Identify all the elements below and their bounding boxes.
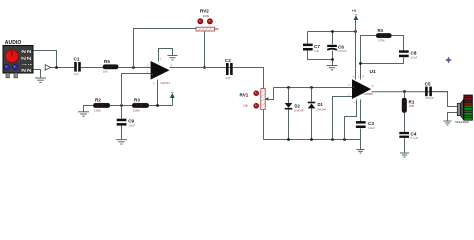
wire U1 pin7 riser and RX feed	[361, 36, 377, 80]
node junction at 157,105.3	[156, 104, 159, 107]
svg-text:10k: 10k	[103, 70, 108, 74]
svg-text:+: +	[151, 73, 153, 77]
power terminal +V	[352, 9, 358, 79]
node junction at 311.5,139.8	[310, 138, 313, 141]
svg-text:100k: 100k	[203, 14, 210, 18]
node junction at 56,67	[55, 66, 58, 69]
pot RV1	[240, 89, 269, 110]
diode D2	[285, 88, 304, 140]
wire R2 to R3	[110, 105, 133, 107]
wire jack tip to node	[34, 51, 57, 68]
svg-text:RV2: RV2	[200, 8, 209, 13]
svg-text:100k: 100k	[94, 108, 101, 112]
node junction at 133.5,67	[132, 66, 135, 69]
pot RV2	[196, 8, 219, 31]
svg-text:270k: 270k	[378, 38, 385, 42]
capacitor C2	[225, 58, 233, 80]
svg-text:1uF: 1uF	[314, 49, 319, 53]
ground (bottom rail)	[357, 150, 365, 154]
node junction at 344.2,139.8	[343, 138, 346, 141]
svg-text:0.1uF: 0.1uF	[411, 136, 419, 140]
resistor RX	[376, 28, 391, 43]
svg-text:1N4148: 1N4148	[294, 109, 304, 113]
svg-text:U1: U1	[370, 69, 376, 75]
ground (jack)	[35, 78, 46, 82]
svg-text:RX: RX	[378, 28, 384, 33]
power terminal +V (bias)	[170, 93, 174, 106]
svg-text:10uF: 10uF	[128, 124, 135, 128]
wire op-amp U2 pin7 to ground	[159, 49, 173, 62]
ground (U2 top)	[168, 56, 178, 60]
op-amp U1 LM386	[348, 69, 376, 105]
wire RV2 wiper to signal line	[204, 32, 206, 68]
cursor marker	[445, 57, 452, 64]
wire RX to C8	[392, 36, 404, 51]
wire RV1 bottom to bottom rail	[263, 110, 265, 140]
wire C5 to speaker	[433, 92, 458, 107]
svg-text:RV1: RV1	[240, 93, 249, 98]
svg-text:C5: C5	[425, 82, 431, 87]
svg-text:R3: R3	[134, 97, 140, 102]
wire U1 output to speaker	[372, 91, 448, 93]
svg-text:LM741: LM741	[161, 81, 171, 85]
node junction at 360.7,63	[359, 62, 362, 65]
wire C2 to RV1 top	[233, 68, 264, 89]
wire C9 to ground	[121, 126, 123, 140]
ground (R2 left)	[78, 106, 94, 117]
ground (C4)	[400, 153, 409, 157]
wire RV1 wiper to mid rail	[266, 88, 274, 100]
resistor R1	[402, 92, 415, 133]
node junction at 332,31.5	[331, 30, 334, 33]
node junction at 332,59.2	[331, 58, 334, 61]
resistor R5	[103, 59, 119, 74]
diode D1	[308, 88, 327, 140]
wire U1 minus input from bottom rail	[333, 97, 353, 140]
capacitor C8	[399, 50, 418, 59]
svg-text:LM386: LM386	[364, 92, 374, 96]
svg-text:10uF: 10uF	[368, 126, 375, 130]
resistor R3	[132, 97, 149, 112]
svg-text:D1: D1	[318, 102, 324, 107]
svg-text:R5: R5	[104, 59, 110, 64]
input terminal arrow	[45, 65, 50, 70]
wire input to C1	[51, 67, 75, 69]
svg-text:+V: +V	[352, 9, 357, 13]
wire U1 pin4 to bottom rail	[345, 100, 357, 140]
AUDIO label	[5, 40, 22, 46]
svg-text:10k: 10k	[243, 104, 248, 108]
wire op-amp U2 bottom pin down	[157, 80, 159, 106]
capacitor C9	[117, 106, 136, 128]
capacitor C6	[327, 32, 347, 66]
svg-text:-: -	[353, 95, 354, 99]
bottom rail wire	[264, 139, 361, 141]
top rail C7 C6 to +V line	[308, 31, 356, 33]
node junction at 121.5,105.3	[120, 104, 123, 107]
ground (speaker)	[444, 121, 452, 125]
svg-text:10uF: 10uF	[411, 56, 418, 60]
svg-text:100k: 100k	[133, 108, 140, 112]
node junction at 355.9,31.5	[354, 30, 357, 33]
node junction at 288.5,87	[287, 86, 290, 89]
svg-text:D2: D2	[295, 103, 301, 108]
wire R5 to op-amp U2	[119, 67, 151, 69]
audio jack J1 body	[3, 46, 33, 78]
svg-text:3.04nF: 3.04nF	[337, 49, 347, 53]
svg-text:1N4148: 1N4148	[317, 107, 327, 111]
svg-text:+: +	[353, 86, 355, 90]
svg-text:10R: 10R	[409, 104, 415, 108]
speaker LS1	[455, 95, 473, 124]
op-amp U2 LM741	[147, 57, 173, 85]
resistor R2	[93, 97, 110, 112]
wire C8 bottom to U1 pin line	[361, 58, 404, 64]
svg-text:1uF: 1uF	[225, 76, 230, 80]
capacitor C3	[356, 100, 375, 150]
node junction at 403.9,91.4	[403, 90, 406, 93]
svg-text:SPEAKER: SPEAKER	[455, 120, 469, 124]
svg-text:470uF: 470uF	[425, 96, 434, 100]
ground (C6 C7)	[327, 66, 338, 70]
svg-text:R2: R2	[95, 97, 101, 102]
capacitor C7	[303, 32, 333, 60]
wire node to U2 plus input	[122, 74, 151, 106]
wire U2 output to C2	[170, 67, 264, 69]
capacitor C1	[74, 57, 81, 77]
wire C1 to R5	[81, 67, 104, 69]
svg-text:1uF: 1uF	[74, 72, 79, 76]
node junction at 332,139.8	[331, 138, 334, 141]
wire R3 to +V arrow	[149, 105, 173, 107]
mid rail wire to U1 plus input	[274, 87, 353, 89]
node junction at 288.5,139.8	[287, 138, 290, 141]
svg-text:-: -	[151, 65, 152, 69]
wire riser to top rail	[134, 29, 197, 68]
ground (C9)	[116, 140, 127, 144]
wire jack sleeve to ground	[34, 70, 41, 79]
svg-text:C1: C1	[74, 57, 80, 62]
node junction at 203.5,67	[203, 66, 206, 69]
svg-text:C2: C2	[225, 58, 231, 63]
wire speaker bottom to ground	[448, 113, 458, 122]
capacitor C4	[399, 131, 418, 153]
capacitor C5	[424, 82, 434, 100]
node junction at 311.5,87	[310, 86, 313, 89]
